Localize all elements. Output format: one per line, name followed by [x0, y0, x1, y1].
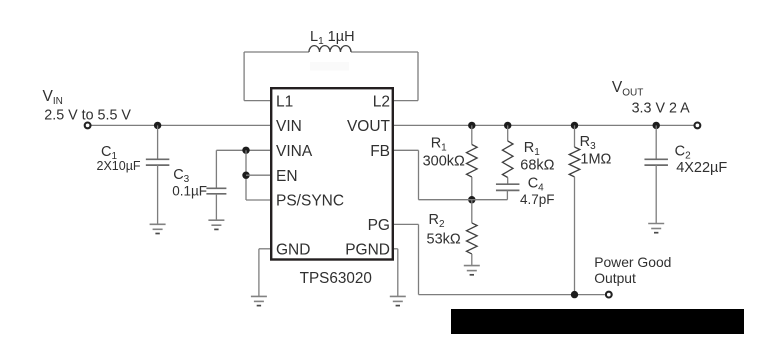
svg-text:Output: Output [594, 270, 636, 286]
svg-text:2.5 V to 5.5 V: 2.5 V to 5.5 V [44, 108, 131, 124]
svg-text:0.1µF: 0.1µF [172, 183, 207, 198]
svg-text:TPS63020: TPS63020 [300, 270, 372, 287]
svg-text:4X22µF: 4X22µF [676, 160, 727, 176]
svg-text:L2: L2 [373, 93, 390, 110]
svg-text:VOUT: VOUT [612, 79, 643, 98]
svg-text:VIN: VIN [276, 118, 302, 135]
svg-text:2X10µF: 2X10µF [97, 159, 141, 173]
svg-text:68kΩ: 68kΩ [520, 157, 554, 173]
svg-text:PS/SYNC: PS/SYNC [276, 193, 344, 210]
svg-text:53kΩ: 53kΩ [427, 231, 461, 247]
svg-text:EN: EN [276, 168, 298, 185]
svg-text:VOUT: VOUT [347, 118, 391, 135]
svg-text:L1 1µH: L1 1µH [310, 29, 355, 47]
svg-text:R3: R3 [580, 134, 596, 152]
svg-text:C2: C2 [675, 143, 691, 161]
svg-text:L1: L1 [276, 93, 293, 110]
svg-text:1MΩ: 1MΩ [580, 151, 611, 167]
svg-text:300kΩ: 300kΩ [423, 154, 465, 170]
svg-text:VINA: VINA [276, 143, 313, 160]
svg-text:R2: R2 [429, 212, 445, 230]
svg-text:C4: C4 [528, 176, 544, 194]
svg-text:PG: PG [368, 217, 390, 234]
svg-text:VIN: VIN [43, 88, 63, 107]
svg-text:Power Good: Power Good [594, 254, 671, 270]
svg-text:R1: R1 [431, 136, 447, 154]
svg-text:FB: FB [370, 143, 390, 160]
svg-text:4.7pF: 4.7pF [520, 192, 555, 207]
svg-text:PGND: PGND [345, 241, 390, 258]
svg-text:GND: GND [276, 241, 310, 258]
svg-text:3.3 V 2 A: 3.3 V 2 A [632, 100, 690, 116]
svg-text:R1: R1 [524, 140, 540, 158]
